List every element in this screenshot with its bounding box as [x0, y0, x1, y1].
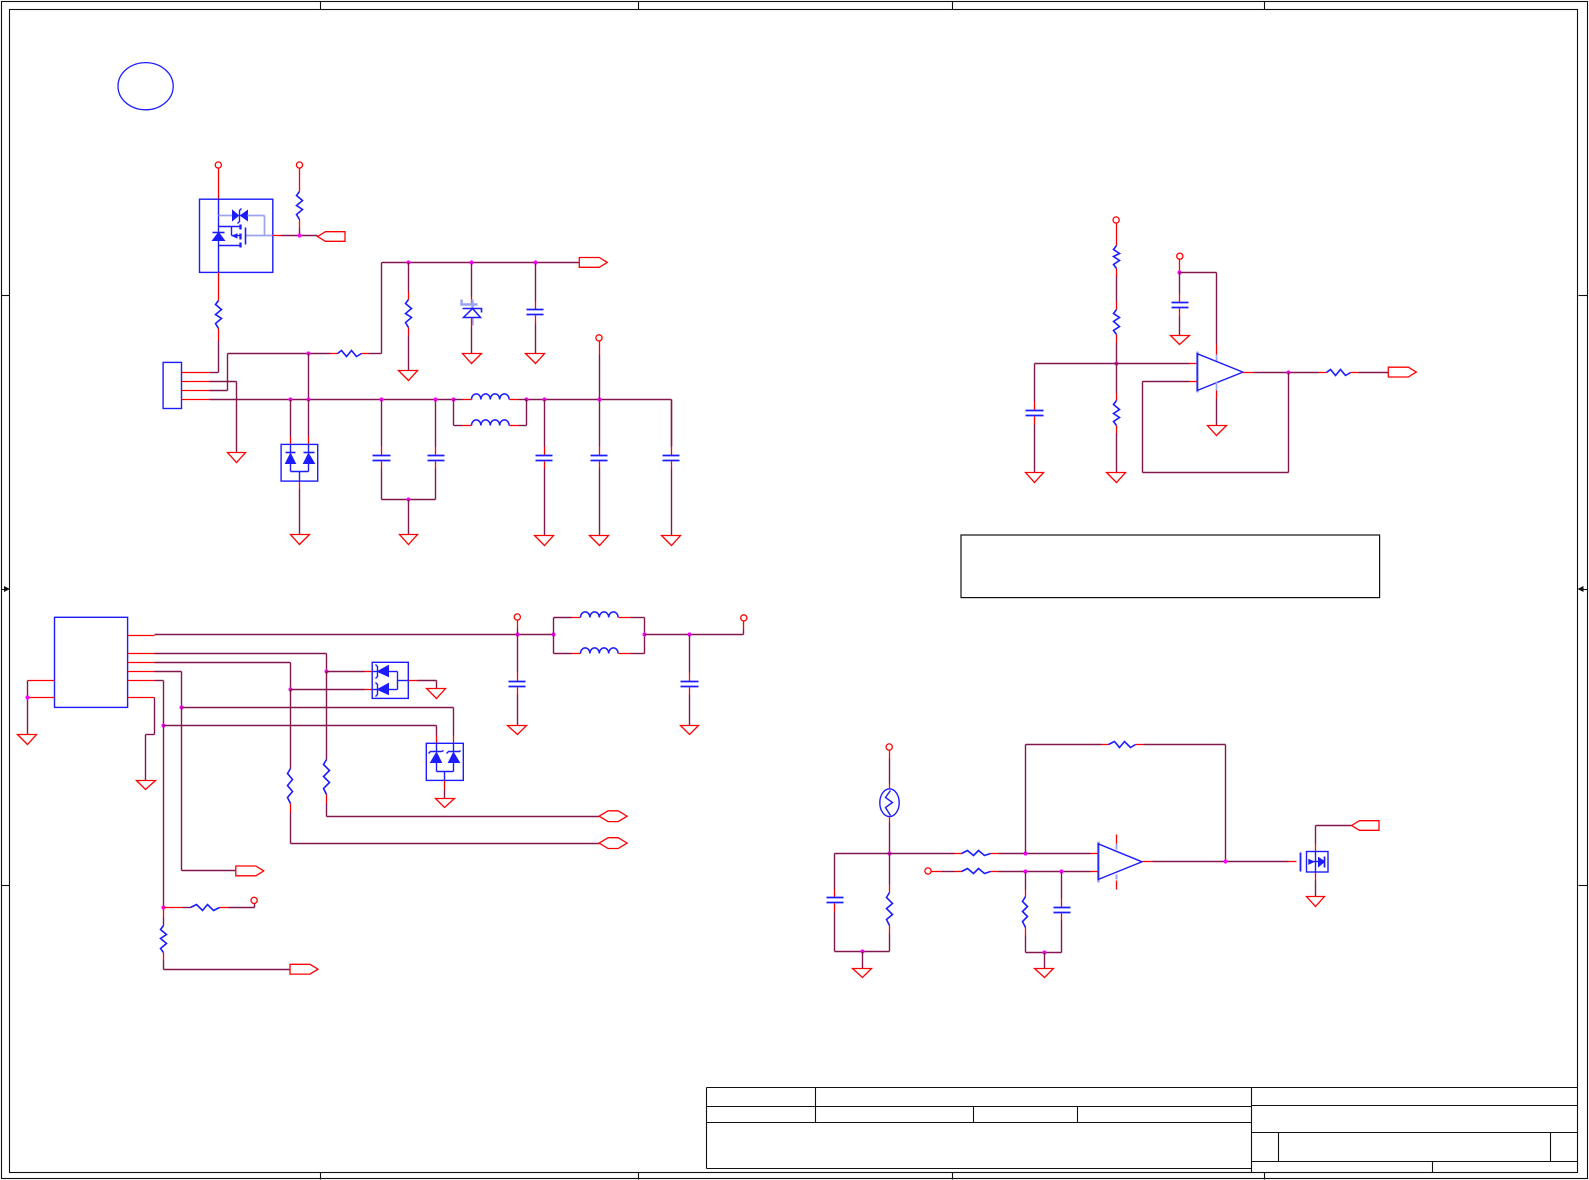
dual diode D2	[281, 444, 318, 481]
mosfet module Q1	[200, 199, 273, 272]
ground C2C3	[400, 535, 418, 545]
junction rail a	[406, 260, 410, 264]
resistor R15	[962, 869, 1099, 874]
zener D1	[462, 263, 482, 354]
left border centre arrow	[2, 586, 11, 592]
wire pin2 to D3	[327, 671, 373, 673]
capacitor C2	[373, 400, 391, 500]
junction -in a	[1023, 869, 1027, 873]
wire pin5	[155, 681, 164, 726]
junction bus 8	[597, 397, 601, 401]
U2 pin3 stub	[128, 662, 155, 664]
wire RC row	[228, 353, 331, 355]
U2 pin5 stub	[128, 680, 155, 682]
wire TP2 to R2	[299, 169, 301, 192]
wire U2 left gnd	[27, 681, 29, 735]
ground R16C12	[1035, 969, 1054, 978]
wire join gnd	[862, 952, 864, 969]
terminal TP7	[741, 615, 747, 621]
resistor R1	[216, 301, 222, 373]
wire RT1 left	[835, 853, 890, 855]
junction pin5	[161, 723, 165, 727]
capacitor C5	[591, 400, 608, 536]
title block	[707, 1088, 1578, 1173]
junction filter right	[642, 632, 646, 636]
wire Q1 gate node	[282, 235, 318, 237]
resistor R8	[1319, 370, 1389, 376]
port IO1 hex	[599, 811, 627, 822]
port GATE flag	[1352, 821, 1380, 831]
wire RC to bus	[308, 354, 310, 400]
ground C11R13	[853, 969, 872, 978]
ground U1 V-	[1208, 426, 1227, 436]
wire C2 C3 join	[382, 499, 436, 501]
terminal TP2	[296, 162, 302, 168]
port OUT3 arrow	[290, 964, 318, 974]
ground Q2	[1307, 897, 1325, 907]
ground C5	[590, 536, 609, 546]
wire Q1 source down	[218, 273, 220, 301]
resistor R11	[164, 904, 255, 911]
junction bus 6	[524, 397, 528, 401]
U1 -in stub	[1190, 381, 1198, 383]
capacitor C1	[527, 263, 544, 354]
wire rail to TP7	[743, 622, 745, 635]
U2 pin1 stub	[128, 635, 155, 637]
wire TP1 to Q1	[218, 169, 220, 200]
junction bus 7	[542, 397, 546, 401]
inductor L2 parallel loop	[454, 400, 527, 426]
right border centre arrow	[1578, 586, 1588, 592]
terminal TP8	[251, 897, 257, 903]
wire RT1 down	[889, 817, 891, 854]
Q2 drain wire	[1316, 826, 1352, 852]
ground C4	[535, 536, 554, 546]
junction RC row	[306, 351, 310, 355]
capacitor C6	[663, 400, 680, 536]
mosfet Q2	[1301, 852, 1329, 873]
junction C11R13	[860, 949, 864, 953]
resistor R17	[1102, 742, 1226, 862]
resistor R14	[962, 851, 1099, 856]
wire R5 R6	[1116, 277, 1118, 310]
J1 pin1 stub	[182, 372, 210, 374]
wire pin1 rail	[155, 634, 554, 636]
wire pin4 to port	[182, 708, 236, 871]
U1 V- pin	[1216, 382, 1218, 426]
resistor R7	[1114, 364, 1120, 473]
junction rail b	[469, 260, 473, 264]
inductor filter L3 L4	[554, 612, 645, 654]
junction pin2	[324, 669, 328, 673]
wire D2 pin2	[308, 400, 310, 445]
inductor L1	[454, 394, 527, 400]
wire R9 to port	[327, 816, 600, 818]
capacitor C9	[509, 635, 526, 726]
wire top rail	[382, 262, 580, 264]
junction divider	[1114, 361, 1118, 365]
junction bus 3	[379, 397, 383, 401]
ground C1	[526, 354, 545, 364]
ground R4	[399, 371, 418, 381]
capacitor C10	[681, 635, 699, 726]
wire R10 to port	[291, 843, 600, 845]
op-amp U1	[1197, 352, 1243, 393]
junction pin3	[288, 687, 292, 691]
resistor R5	[1114, 224, 1120, 277]
port IO2 hex	[599, 838, 627, 849]
capacitor C11	[827, 854, 844, 952]
ground C10	[681, 726, 699, 735]
wire pin3	[155, 663, 291, 690]
J1 pin3 stub	[182, 390, 210, 392]
wire TP9 to RT1	[889, 751, 891, 789]
junction pin4	[179, 705, 183, 709]
op-amp U3	[1098, 835, 1142, 890]
wire pin4 to D4	[182, 708, 454, 744]
thermistor RT1	[880, 789, 899, 817]
wire TP3 to bus	[599, 342, 601, 400]
resistor R10	[288, 690, 293, 844]
wire bus corner down	[671, 400, 673, 447]
feedback wire U3	[1026, 745, 1102, 854]
junction rail C10	[687, 632, 691, 636]
junction fb tap	[1023, 851, 1027, 855]
resistor R13	[887, 854, 893, 952]
wire pin2	[155, 654, 327, 672]
ground R7	[1107, 473, 1126, 483]
wire pin5 down	[163, 726, 165, 908]
ground D2	[291, 535, 310, 545]
junction RT1	[887, 851, 891, 855]
ground U2 pin6	[137, 781, 156, 790]
wire +in row	[1035, 363, 1198, 365]
junction bus 1	[288, 397, 292, 401]
terminal TP4	[1113, 217, 1119, 223]
junction R16C12	[1042, 950, 1046, 954]
note box	[961, 535, 1380, 598]
junction C2C3	[406, 497, 410, 501]
Q2 source wire	[1315, 873, 1317, 897]
capacitor C7	[1026, 364, 1044, 473]
wire join to gnd	[408, 500, 410, 535]
wire R12 to port	[164, 969, 291, 971]
terminal TP9	[886, 744, 892, 750]
resistor R16	[1023, 872, 1028, 953]
ground D1	[463, 354, 482, 364]
resistor R6	[1114, 310, 1120, 364]
wire R16 C12 join	[1026, 952, 1062, 954]
ground C9	[508, 726, 527, 735]
U3 output wire	[1143, 861, 1297, 863]
J1 pin4 stub	[182, 399, 210, 401]
J1 pin2 stub	[182, 381, 210, 383]
ground D3	[427, 689, 446, 699]
ground C8	[1171, 336, 1190, 345]
wire mid bus left	[210, 399, 454, 401]
U1 output wire	[1243, 372, 1319, 374]
wire J1.1 to R1	[210, 372, 219, 374]
ground C7	[1026, 473, 1044, 483]
terminal TP10	[925, 868, 931, 874]
port VOUT arrow	[579, 258, 607, 268]
junction TP5	[1177, 270, 1181, 274]
ic U2	[55, 617, 128, 707]
ground U2 left	[18, 735, 37, 745]
resistor R4	[406, 263, 412, 371]
wire TP10 to R15	[932, 871, 962, 873]
wire R3 up to rail	[381, 263, 383, 354]
junction pin5 low	[161, 905, 165, 909]
ground D4	[436, 799, 455, 808]
connector J1	[163, 362, 181, 408]
dual zener D4	[426, 743, 463, 780]
Q1 right pin stub	[273, 235, 282, 237]
resistor R12	[161, 908, 167, 970]
junction U3 out	[1223, 859, 1227, 863]
capacitor C12	[1054, 872, 1071, 953]
capacitor C4	[536, 400, 553, 536]
junction bus 2	[306, 397, 310, 401]
junction filter left	[551, 632, 555, 636]
wire pin5 to D4	[164, 726, 437, 744]
junction bus 5	[451, 397, 455, 401]
logo ellipse	[118, 63, 173, 110]
resistor R2	[297, 192, 303, 236]
junction gate node	[297, 233, 301, 237]
wire J1.3 up	[210, 354, 228, 391]
U2 left pin stubs	[28, 681, 55, 698]
junction rail cap	[515, 632, 519, 636]
port OUT1 arrow	[1388, 367, 1416, 377]
terminal TP6	[514, 614, 520, 620]
ground C6	[662, 536, 681, 546]
wire D4 to gnd	[444, 781, 446, 799]
terminal TP5	[1177, 253, 1183, 259]
dual zener D3	[372, 662, 408, 698]
U2 pin2 stub	[128, 653, 155, 655]
port OUT2 arrow	[236, 866, 264, 876]
U2 pin4 stub	[128, 671, 155, 673]
capacitor C8	[1172, 273, 1189, 336]
resistor R3	[331, 351, 382, 357]
junction rail c	[533, 260, 537, 264]
wire C11 R13 join	[835, 951, 890, 953]
wire TP6 to rail	[517, 621, 519, 635]
wire D2 to gnd	[299, 482, 301, 535]
wire U2 pin6 gnd	[146, 698, 155, 781]
U2 pin6 stub	[128, 697, 155, 699]
junction bus 4	[433, 397, 437, 401]
feedback wire U1	[1143, 373, 1289, 473]
wire D3 to gnd	[409, 681, 437, 689]
junction U1 out	[1286, 370, 1290, 374]
port EN flag	[318, 232, 346, 242]
wire mid bus right	[527, 399, 672, 401]
terminal TP1	[215, 162, 221, 168]
junction left gnd	[25, 695, 29, 699]
wire TP5 to U1 V+	[1180, 273, 1217, 362]
terminal TP3	[596, 335, 602, 341]
wire pin3 to D3	[291, 689, 373, 691]
wire J1.2 to gnd	[210, 382, 237, 453]
wire RT1 to R14	[890, 853, 962, 855]
wire join gnd2	[1044, 953, 1046, 969]
capacitor C3	[428, 400, 445, 500]
ground J1.2	[228, 453, 246, 463]
wire TP5 down	[1179, 260, 1181, 273]
junction -in b	[1059, 869, 1063, 873]
wire D2 pin1	[290, 400, 292, 445]
wire rail right	[645, 634, 744, 636]
wire pin4	[155, 672, 182, 708]
resistor R9	[324, 672, 330, 817]
